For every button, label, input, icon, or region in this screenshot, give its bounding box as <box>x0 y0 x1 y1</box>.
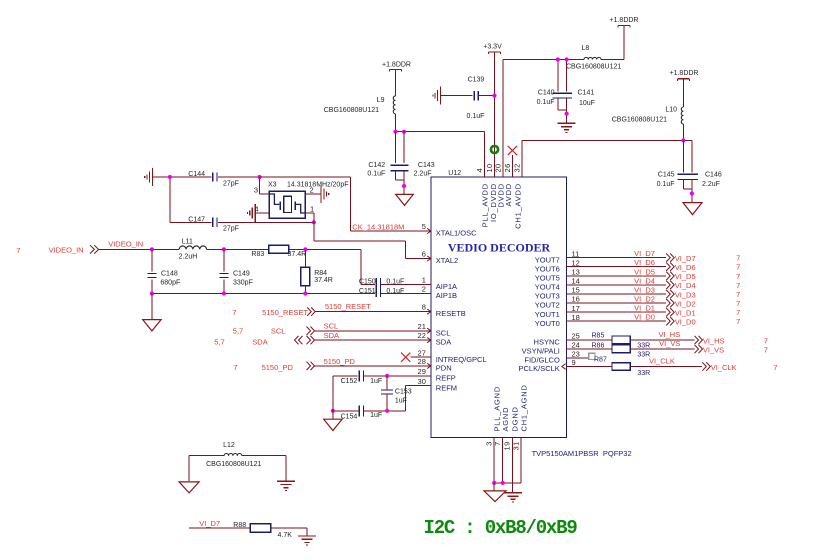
svg-text:C152: C152 <box>341 378 358 385</box>
svg-text:C149: C149 <box>233 270 250 277</box>
svg-text:7: 7 <box>736 317 740 326</box>
svg-text:4.7K: 4.7K <box>278 532 293 539</box>
svg-text:VI_D4: VI_D4 <box>675 281 696 290</box>
svg-text:1: 1 <box>310 204 314 213</box>
svg-text:VSYN/PALI: VSYN/PALI <box>522 347 560 356</box>
svg-text:17: 17 <box>572 304 580 313</box>
svg-text:22: 22 <box>418 331 426 340</box>
svg-text:15: 15 <box>572 286 580 295</box>
svg-text:29: 29 <box>418 367 426 376</box>
svg-text:6: 6 <box>422 250 426 259</box>
svg-text:30: 30 <box>418 377 426 386</box>
svg-text:C154: C154 <box>341 413 358 420</box>
svg-text:RESETB: RESETB <box>436 309 466 318</box>
svg-text:C151: C151 <box>359 288 376 295</box>
svg-text:27pF: 27pF <box>223 226 239 233</box>
svg-text:CBG160808U121: CBG160808U121 <box>612 117 667 124</box>
svg-text:L9: L9 <box>377 97 385 104</box>
svg-text:SCL: SCL <box>324 321 339 330</box>
svg-text:10uF: 10uF <box>579 100 595 107</box>
svg-text:9: 9 <box>572 358 576 367</box>
svg-text:C139: C139 <box>468 77 485 84</box>
svg-text:X3: X3 <box>268 182 277 189</box>
svg-text:VEDIO DECODER: VEDIO DECODER <box>448 241 551 255</box>
svg-text:1uF: 1uF <box>395 398 407 405</box>
svg-text:14.31818MHz/20pF: 14.31818MHz/20pF <box>287 182 348 189</box>
svg-text:+3.3V: +3.3V <box>483 44 502 51</box>
svg-text:VI_D5: VI_D5 <box>634 267 655 276</box>
svg-text:7: 7 <box>736 281 740 290</box>
svg-text:YOUT6: YOUT6 <box>535 264 560 273</box>
svg-text:CBG160808U121: CBG160808U121 <box>206 461 261 468</box>
svg-text:CBG160808U121: CBG160808U121 <box>566 64 621 71</box>
svg-text:7: 7 <box>736 272 740 281</box>
svg-text:VI_D3: VI_D3 <box>675 290 696 299</box>
svg-text:VI_D5: VI_D5 <box>675 272 696 281</box>
svg-text:L11: L11 <box>182 239 193 246</box>
svg-text:C145: C145 <box>658 172 675 179</box>
svg-text:680pF: 680pF <box>160 280 180 287</box>
svg-text:24: 24 <box>572 341 580 350</box>
svg-text:VI_D0: VI_D0 <box>675 318 696 327</box>
svg-text:AIP1B: AIP1B <box>436 291 457 300</box>
svg-text:CBG160808U121: CBG160808U121 <box>324 107 379 114</box>
svg-text:+1.8DDR: +1.8DDR <box>670 70 699 77</box>
svg-text:1uF: 1uF <box>370 412 382 419</box>
svg-text:14: 14 <box>572 277 580 286</box>
svg-text:YOUT0: YOUT0 <box>535 319 560 328</box>
svg-text:SDA: SDA <box>436 338 451 347</box>
svg-text:I2C : 0xB8/0xB9: I2C : 0xB8/0xB9 <box>424 517 578 539</box>
svg-text:VI_D4: VI_D4 <box>634 276 655 285</box>
svg-text:27pF: 27pF <box>223 181 239 188</box>
svg-text:VI_D7: VI_D7 <box>634 249 655 258</box>
svg-text:4: 4 <box>254 204 258 213</box>
svg-text:C140: C140 <box>538 90 555 97</box>
svg-text:5150_RESET: 5150_RESET <box>262 308 308 317</box>
svg-text:VIDEO_IN: VIDEO_IN <box>49 246 84 255</box>
svg-text:C148: C148 <box>161 270 178 277</box>
svg-text:C150: C150 <box>359 278 376 285</box>
svg-text:C146: C146 <box>705 172 722 179</box>
svg-text:R87: R87 <box>594 357 607 364</box>
svg-text:VI_D1: VI_D1 <box>634 304 655 313</box>
svg-text:C143: C143 <box>418 162 435 169</box>
svg-text:7: 7 <box>736 263 740 272</box>
svg-text:2.2uF: 2.2uF <box>702 181 720 188</box>
svg-text:CH1_AVDD: CH1_AVDD <box>513 183 522 229</box>
svg-text:12: 12 <box>572 258 580 267</box>
svg-text:HSYNC: HSYNC <box>534 338 561 347</box>
svg-text:330pF: 330pF <box>233 280 253 287</box>
svg-text:INTREQ/GPCL: INTREQ/GPCL <box>436 355 487 364</box>
svg-text:5150_RESET: 5150_RESET <box>325 302 371 311</box>
svg-text:16: 16 <box>572 295 580 304</box>
svg-text:5,7: 5,7 <box>233 327 243 336</box>
svg-text:7: 7 <box>736 254 740 263</box>
svg-text:VI_CLK: VI_CLK <box>711 363 737 372</box>
svg-text:C153: C153 <box>395 388 412 395</box>
svg-text:7: 7 <box>736 290 740 299</box>
svg-text:7: 7 <box>764 345 768 354</box>
svg-text:VI_D7: VI_D7 <box>199 519 220 528</box>
svg-text:YOUT2: YOUT2 <box>535 301 560 310</box>
svg-text:PCLK/SCLK: PCLK/SCLK <box>519 364 560 373</box>
svg-text:7: 7 <box>773 363 777 372</box>
svg-text:VI_HS: VI_HS <box>703 337 725 346</box>
svg-text:SCL: SCL <box>436 328 451 337</box>
svg-text:32: 32 <box>512 163 521 172</box>
svg-text:AVDD: AVDD <box>504 183 513 206</box>
svg-text:R86: R86 <box>592 342 605 349</box>
svg-text:5,7: 5,7 <box>214 338 224 347</box>
svg-text:27: 27 <box>418 348 426 357</box>
svg-text:REFP: REFP <box>436 373 456 382</box>
svg-text:C142: C142 <box>368 162 385 169</box>
svg-text:VI_D7: VI_D7 <box>675 254 696 263</box>
svg-text:VI_D2: VI_D2 <box>634 295 655 304</box>
svg-text:L10: L10 <box>665 107 677 114</box>
svg-text:VI_D0: VI_D0 <box>634 313 655 322</box>
svg-text:28: 28 <box>418 357 426 366</box>
svg-text:VI_D3: VI_D3 <box>634 286 655 295</box>
svg-text:YOUT5: YOUT5 <box>535 274 560 283</box>
svg-text:YOUT4: YOUT4 <box>535 283 560 292</box>
svg-text:31: 31 <box>511 441 520 450</box>
svg-text:YOUT7: YOUT7 <box>535 255 560 264</box>
svg-text:37.4R: 37.4R <box>288 251 307 258</box>
svg-text:R85: R85 <box>592 333 605 340</box>
svg-text:XTAL2: XTAL2 <box>436 256 458 265</box>
svg-text:7: 7 <box>233 363 237 372</box>
svg-text:1uF: 1uF <box>370 378 382 385</box>
svg-text:VIDEO_IN: VIDEO_IN <box>108 240 143 249</box>
svg-text:0.1uF: 0.1uF <box>367 171 385 178</box>
svg-text:2: 2 <box>422 285 426 294</box>
svg-text:4: 4 <box>475 168 484 173</box>
svg-text:20: 20 <box>493 163 502 172</box>
svg-text:VI_D6: VI_D6 <box>634 258 655 267</box>
svg-text:L12: L12 <box>223 442 235 449</box>
svg-text:26: 26 <box>503 163 512 172</box>
svg-text:7: 7 <box>16 246 20 255</box>
svg-text:+1.8DDR: +1.8DDR <box>610 17 639 24</box>
svg-text:11: 11 <box>572 249 580 258</box>
svg-text:U12: U12 <box>448 170 461 177</box>
svg-text:37.4R: 37.4R <box>314 277 333 284</box>
svg-text:VI_D2: VI_D2 <box>675 299 696 308</box>
svg-text:R83: R83 <box>251 251 264 258</box>
svg-text:5150_PD: 5150_PD <box>262 363 294 372</box>
svg-text:33R: 33R <box>637 370 650 377</box>
svg-text:AIP1A: AIP1A <box>436 282 457 291</box>
svg-text:TVP5150AM1PBSR PQFP32: TVP5150AM1PBSR PQFP32 <box>532 449 632 458</box>
svg-text:3: 3 <box>254 185 258 194</box>
svg-text:7: 7 <box>736 299 740 308</box>
svg-text:0.1uF: 0.1uF <box>537 99 555 106</box>
svg-text:PDN: PDN <box>436 364 452 373</box>
svg-text:C141: C141 <box>578 90 595 97</box>
svg-text:VI_D6: VI_D6 <box>675 263 696 272</box>
svg-text:0.1uF: 0.1uF <box>386 278 404 285</box>
svg-text:0.1uF: 0.1uF <box>386 288 404 295</box>
svg-text:AGND: AGND <box>501 407 510 432</box>
svg-text:+1.8DDR: +1.8DDR <box>382 62 411 69</box>
svg-text:33R: 33R <box>637 342 650 349</box>
svg-text:7: 7 <box>764 336 768 345</box>
svg-text:L8: L8 <box>582 45 590 52</box>
svg-text:21: 21 <box>418 322 426 331</box>
svg-text:R88: R88 <box>233 522 246 529</box>
svg-text:7: 7 <box>493 441 502 446</box>
svg-text:REFM: REFM <box>436 383 457 392</box>
svg-text:CK_14.31818M: CK_14.31818M <box>352 222 404 231</box>
svg-text:YOUT1: YOUT1 <box>535 310 560 319</box>
svg-text:0.1uF: 0.1uF <box>467 113 485 120</box>
svg-text:2.2uF: 2.2uF <box>414 171 432 178</box>
svg-text:C147: C147 <box>188 216 205 223</box>
svg-text:VI_VS: VI_VS <box>659 339 680 348</box>
svg-text:5: 5 <box>422 222 426 231</box>
svg-text:7: 7 <box>736 308 740 317</box>
svg-text:5150_PD: 5150_PD <box>324 357 356 366</box>
svg-text:CH1_AGND: CH1_AGND <box>519 384 528 431</box>
svg-text:SDA: SDA <box>252 338 267 347</box>
svg-text:13: 13 <box>572 268 580 277</box>
svg-text:C144: C144 <box>188 171 205 178</box>
svg-text:25: 25 <box>572 332 580 341</box>
svg-text:XTAL1/OSC: XTAL1/OSC <box>436 229 477 238</box>
svg-text:2.2uH: 2.2uH <box>179 254 198 261</box>
svg-text:SCL: SCL <box>271 327 286 336</box>
svg-text:1: 1 <box>422 276 426 285</box>
svg-text:VI_HS: VI_HS <box>659 330 681 339</box>
svg-text:8: 8 <box>422 303 426 312</box>
svg-text:7: 7 <box>232 308 236 317</box>
svg-text:VI_VS: VI_VS <box>703 346 724 355</box>
svg-text:YOUT3: YOUT3 <box>535 292 560 301</box>
svg-text:VI_CLK: VI_CLK <box>649 356 675 365</box>
svg-text:18: 18 <box>572 313 580 322</box>
svg-text:SDA: SDA <box>324 331 339 340</box>
svg-text:VI_D1: VI_D1 <box>675 309 696 318</box>
svg-text:0.1uF: 0.1uF <box>657 181 675 188</box>
